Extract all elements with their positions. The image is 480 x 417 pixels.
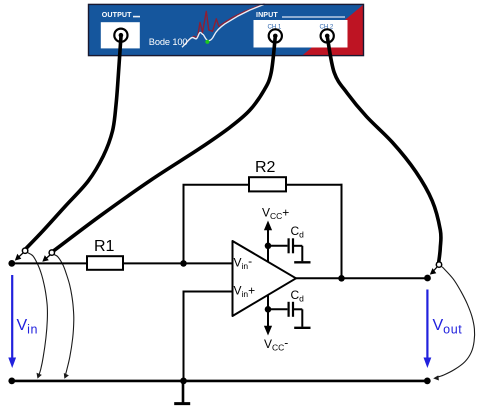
node Vcc- xyxy=(265,306,272,313)
resistor R1 xyxy=(87,256,123,270)
instrument waveform white trace xyxy=(182,5,264,48)
wire op-amp output to Vout node xyxy=(295,277,428,279)
instrument INPUT connector plate xyxy=(254,20,348,48)
op-amp U1 xyxy=(233,241,297,316)
wire feedback left branch xyxy=(183,185,185,264)
node Vout top xyxy=(424,275,431,282)
Vcc+ supply arrow xyxy=(267,228,269,262)
wire feedback top right xyxy=(286,184,343,186)
ground rail xyxy=(12,380,428,383)
node Vcc+ xyxy=(265,243,272,250)
node feedback output junction xyxy=(338,275,345,282)
svg-text:Vin: Vin xyxy=(17,317,39,336)
node ground rail left xyxy=(8,378,15,385)
capacitor Cd (top) xyxy=(288,238,290,253)
probe tip 3 arrow xyxy=(433,267,437,272)
node input xyxy=(8,260,15,267)
wire R1 to op-amp inverting input xyxy=(123,262,233,264)
Vin measurement arrow xyxy=(11,275,13,359)
connector CH2 BNC xyxy=(321,29,334,42)
node R1 R2 junction xyxy=(180,260,187,267)
wire Vcc+ node to Cd xyxy=(268,245,287,247)
connector CH1 BNC xyxy=(269,29,282,42)
probe tip 1 arrow xyxy=(18,253,23,258)
cable OUTPUT to input node xyxy=(26,36,121,249)
svg-text:Bode 100: Bode 100 xyxy=(149,37,188,47)
wire Cd bottom to stub xyxy=(294,308,302,310)
svg-text:OUTPUT: OUTPUT xyxy=(102,11,132,19)
wire Vcc- node to Cd xyxy=(268,308,287,310)
probe tip 2 arrow xyxy=(46,255,51,259)
svg-text:R2: R2 xyxy=(255,159,276,176)
instrument waveform red trace xyxy=(185,4,265,44)
wire non-inverting to ground rail xyxy=(183,291,185,382)
cable CH2 to output node xyxy=(327,36,441,261)
cable CH1 to input node xyxy=(54,36,275,250)
connector OUTPUT BNC xyxy=(114,29,127,42)
wire non-inverting input xyxy=(184,291,233,293)
node ground rail right xyxy=(424,378,431,385)
instrument border xyxy=(89,4,364,55)
svg-text:VCC+: VCC+ xyxy=(262,205,289,221)
probe ground lead 3 xyxy=(436,266,475,377)
probe tip 3 circle xyxy=(436,262,441,267)
svg-text:Vout: Vout xyxy=(433,317,463,336)
instrument OUTPUT connector plate xyxy=(101,22,140,48)
svg-text:R1: R1 xyxy=(94,238,115,255)
wire feedback right branch xyxy=(341,184,343,278)
Vcc- supply arrow xyxy=(267,295,269,328)
probe tip 2 circle xyxy=(49,250,54,255)
probe ground lead 1 xyxy=(28,253,48,377)
resistor R2 xyxy=(249,177,286,191)
svg-text:VCC-: VCC- xyxy=(264,336,288,353)
instrument Bode 100 body xyxy=(89,4,364,56)
instrument green indicator dot xyxy=(205,40,209,44)
svg-text:Cd: Cd xyxy=(291,288,305,304)
wire Cd top to stub xyxy=(294,245,302,247)
node ground rail center xyxy=(180,378,187,385)
svg-text:Cd: Cd xyxy=(291,224,305,240)
wire feedback top left xyxy=(183,184,250,186)
svg-text:INPUT: INPUT xyxy=(256,11,278,19)
probe tip 1 circle xyxy=(22,248,27,253)
ground symbol xyxy=(182,381,185,403)
instrument red wedge xyxy=(303,5,364,56)
Vout measurement arrow xyxy=(426,290,428,360)
capacitor Cd (bottom) xyxy=(288,302,290,317)
wire input node to R1 xyxy=(12,262,87,264)
probe ground lead 2 xyxy=(54,255,74,377)
